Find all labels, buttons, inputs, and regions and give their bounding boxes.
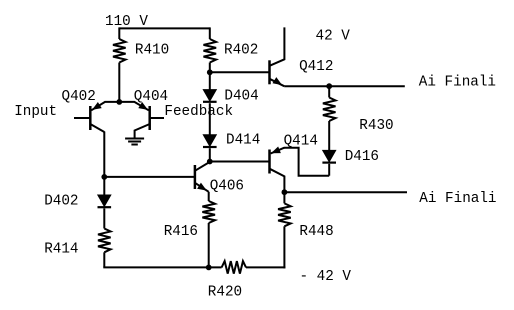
- svg-text:Ai Finali: Ai Finali: [419, 191, 496, 207]
- svg-text:110 V: 110 V: [105, 14, 148, 30]
- svg-text:42 V: 42 V: [316, 29, 351, 45]
- svg-text:Q412: Q412: [299, 59, 333, 75]
- svg-text:R448: R448: [299, 224, 333, 240]
- svg-text:R416: R416: [164, 224, 198, 240]
- svg-text:Q414: Q414: [284, 134, 318, 150]
- svg-text:D404: D404: [224, 89, 258, 105]
- svg-text:R420: R420: [208, 285, 242, 301]
- svg-text:Q402: Q402: [62, 89, 96, 105]
- svg-text:Feedback: Feedback: [164, 104, 233, 120]
- svg-text:Q406: Q406: [210, 179, 244, 195]
- svg-text:R414: R414: [44, 241, 78, 257]
- svg-text:D416: D416: [345, 149, 379, 165]
- svg-text:R410: R410: [135, 43, 169, 59]
- svg-text:R430: R430: [359, 118, 393, 134]
- svg-text:D414: D414: [226, 133, 260, 149]
- svg-text:Ai Finali: Ai Finali: [419, 74, 496, 90]
- svg-text:Q404: Q404: [134, 89, 168, 105]
- svg-text:Input: Input: [14, 104, 57, 120]
- svg-text:D402: D402: [44, 193, 78, 209]
- svg-text:- 42 V: - 42 V: [300, 269, 352, 285]
- svg-text:R402: R402: [224, 43, 258, 59]
